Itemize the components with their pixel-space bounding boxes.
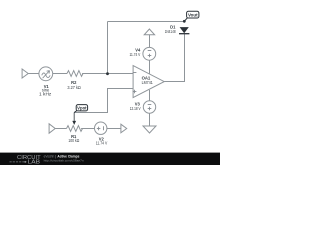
footer bar: [0, 153, 220, 165]
node flag arrow (right of V2): [121, 124, 127, 133]
wire V4 to op-amp V+ pin: [149, 60, 151, 74]
wire op-amp V- pin to V3: [149, 90, 151, 101]
voltage source V3: [143, 101, 155, 113]
label V1 value: [39, 84, 51, 97]
potentiometer R1 wiper arrow: [72, 113, 76, 125]
wire V1 to R2: [53, 73, 67, 75]
voltage source V4: [143, 47, 156, 60]
wire V3 to ground: [149, 113, 151, 126]
label D1 value: [165, 25, 176, 35]
svg-text:1 kHz: 1 kHz: [39, 92, 51, 97]
junction node at Vout: [183, 20, 186, 23]
footer CircuitLab logo: [10, 155, 42, 166]
op-amp input polarity signs: [133, 73, 137, 94]
svg-text:11.74 V: 11.74 V: [96, 141, 108, 146]
footer credit text: [44, 155, 84, 163]
svg-text:LAB: LAB: [28, 160, 41, 165]
wire diode cathode to op-amp output: [164, 34, 184, 82]
net label flag Vpot: [74, 105, 87, 113]
svg-text:11.74 V: 11.74 V: [130, 52, 141, 57]
wire R1 to V2: [81, 128, 94, 130]
resistor R2: [67, 71, 83, 77]
voltage source V1 sine: [39, 67, 53, 81]
svg-text:12.18 V: 12.18 V: [130, 106, 141, 111]
svg-text:Vout: Vout: [188, 13, 198, 18]
label R2 value: [67, 80, 80, 90]
potentiometer R1: [67, 126, 83, 132]
op-amp OA1 triangle: [133, 66, 164, 98]
svg-text:http://circuitlab.com/c58ae7n: http://circuitlab.com/c58ae7n: [44, 158, 84, 162]
voltage source V2: [95, 122, 107, 134]
V4 polarity signs: [148, 51, 152, 58]
svg-text:Vpot: Vpot: [77, 106, 87, 111]
svg-text:1N4148: 1N4148: [165, 29, 176, 34]
label R1 value: [68, 134, 79, 143]
label V3 value: [130, 101, 141, 111]
svg-text:LM741: LM741: [142, 80, 154, 85]
svg-text:100 kΩ: 100 kΩ: [68, 138, 79, 143]
wire top horizontal to Vout node: [108, 21, 185, 23]
label OA1: [142, 76, 154, 85]
label V4 value: [130, 48, 142, 57]
net label flag Vout: [184, 11, 199, 21]
node flag arrow (left of V1): [22, 69, 28, 78]
node flag arrow up above V4: [144, 29, 154, 35]
svg-text:3.27 kΩ: 3.27 kΩ: [67, 85, 80, 90]
ground symbol: [143, 126, 156, 133]
wire V1 left lead: [28, 73, 39, 75]
label V2 value: [96, 137, 108, 146]
node flag arrow (left of R1): [49, 124, 55, 133]
V3 polarity signs: [148, 105, 152, 111]
wire node A up: [107, 22, 109, 74]
wire up-arrow to V4: [149, 35, 151, 48]
wire R2 to op-amp inverting input: [82, 73, 133, 75]
op-amp non-inverting input wire to pot wiper: [74, 89, 133, 113]
wire V2 to right node flag: [107, 128, 121, 130]
diode D1: [179, 27, 189, 34]
V2 polarity signs: [97, 126, 104, 130]
wire arrow to R1: [55, 128, 66, 130]
junction node at R2 / feedback tap: [106, 72, 109, 75]
